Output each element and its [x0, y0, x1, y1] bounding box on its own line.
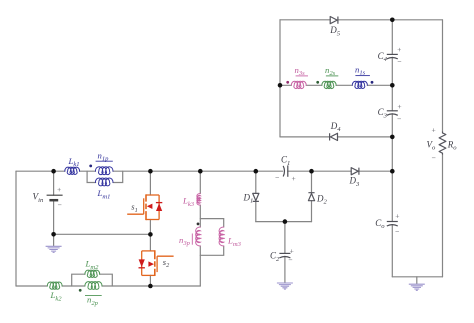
- svg-text:−: −: [57, 201, 62, 210]
- svg-text:−: −: [397, 57, 402, 66]
- svg-text:+: +: [291, 174, 296, 183]
- svg-text:+: +: [397, 45, 402, 54]
- svg-text:−: −: [431, 154, 436, 163]
- svg-text:+: +: [395, 211, 400, 220]
- svg-text:−: −: [396, 114, 401, 123]
- svg-text:+: +: [289, 246, 294, 255]
- svg-text:−: −: [274, 173, 279, 182]
- svg-text:+: +: [56, 185, 61, 194]
- svg-text:+: +: [431, 126, 436, 135]
- svg-text:−: −: [394, 227, 399, 236]
- svg-text:+: +: [397, 102, 402, 111]
- svg-text:−: −: [288, 255, 293, 264]
